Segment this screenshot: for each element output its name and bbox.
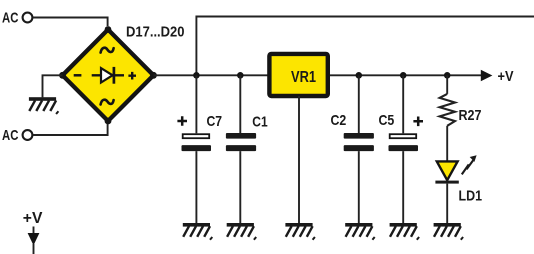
svg-text:AC: AC — [2, 127, 19, 144]
wire bridge left vertex to ground — [43, 75, 63, 97]
ground (VR1) — [285, 223, 315, 240]
ground (bridge input) — [29, 97, 59, 114]
ground (LD1) — [434, 223, 464, 240]
label + (C7 polarity) — [177, 116, 187, 126]
minus sign (bridge -) — [74, 74, 82, 77]
capacitor C7 — [182, 75, 212, 223]
svg-text:+V: +V — [498, 68, 514, 85]
node bridge left vertex — [59, 72, 66, 79]
wire AC top to bridge — [33, 18, 108, 27]
ground (C2) — [345, 223, 375, 240]
LED LD1 — [435, 161, 458, 223]
junction node C2 — [356, 72, 363, 79]
AC tilde (bridge top) — [101, 48, 114, 53]
wire to top rail — [196, 17, 534, 76]
svg-text:C1: C1 — [252, 114, 267, 131]
ground (C1) — [227, 223, 257, 240]
capacitor C1 — [226, 75, 256, 223]
power arrow +V down — [28, 227, 40, 254]
svg-text:+V: +V — [23, 210, 43, 227]
terminal AC (bottom input) — [23, 130, 33, 140]
junction node C5 — [400, 72, 407, 79]
junction node R27 — [444, 72, 451, 79]
capacitor C2 — [344, 75, 374, 223]
junction node C1 — [237, 72, 244, 79]
svg-text:C7: C7 — [207, 113, 223, 130]
AC tilde (bridge bottom) — [101, 100, 114, 105]
capacitor C5 — [389, 75, 419, 223]
svg-text:C2: C2 — [331, 112, 347, 129]
svg-text:VR1: VR1 — [291, 69, 316, 86]
junction node C7 — [193, 72, 200, 79]
LED light emission arrow — [462, 155, 477, 174]
svg-text:LD1: LD1 — [459, 187, 483, 204]
svg-text:R27: R27 — [459, 107, 482, 124]
svg-text:AC: AC — [2, 10, 19, 27]
label + (C5 polarity) — [413, 117, 423, 127]
node bridge right vertex — [150, 72, 157, 79]
node bridge top vertex — [105, 26, 112, 33]
svg-text:C5: C5 — [379, 112, 395, 129]
terminal AC (top input) — [23, 13, 33, 23]
ground (C5) — [390, 223, 420, 240]
ground (C7) — [183, 223, 213, 240]
node bridge bottom vertex — [105, 118, 112, 125]
arrow +V output — [481, 70, 493, 81]
wire AC bottom to bridge — [33, 124, 108, 135]
svg-text:D17...D20: D17...D20 — [126, 23, 185, 40]
plus sign (bridge +) — [128, 72, 136, 80]
bridge rectifier D17...D20 — [63, 30, 154, 122]
resistor R27 — [440, 75, 455, 161]
wire VR1 to ground — [298, 96, 300, 223]
voltage regulator VR1 — [269, 54, 327, 96]
diode symbol inside bridge — [92, 67, 124, 84]
wire main +V rail — [154, 74, 482, 76]
